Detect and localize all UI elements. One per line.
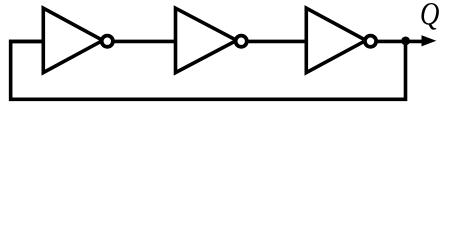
inverter U2 [176,8,237,72]
wire: main horizontal signal line [9,40,428,44]
inverter U2 bubble [236,36,247,47]
inverter U1 [43,8,103,72]
svg-text:Q: Q [420,0,440,32]
inverter U1 bubble [102,36,113,47]
junction dot at output node [401,37,410,46]
arrowhead on output Q [422,35,437,46]
inverter U3 bubble [365,36,376,47]
inverter U3 [306,8,366,72]
wire: feedback loop (left drop, bottom run, right rise) [11,41,406,99]
